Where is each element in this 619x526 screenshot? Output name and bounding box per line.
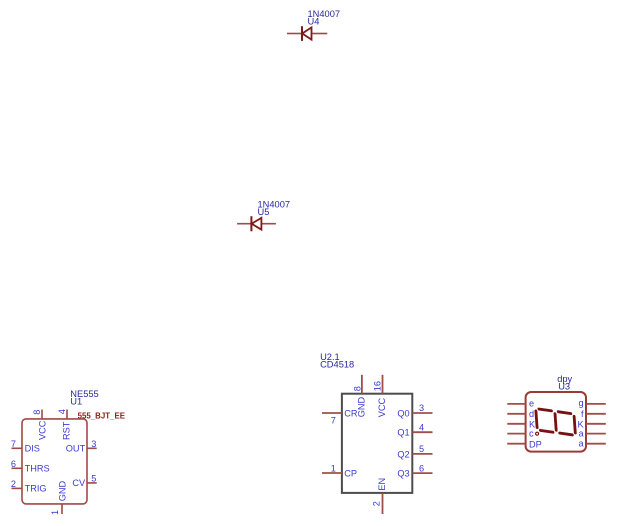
svg-text:U3: U3	[558, 382, 570, 392]
svg-text:RST: RST	[61, 421, 71, 440]
svg-text:4: 4	[57, 409, 67, 414]
U2.1 pin 4 wire	[412, 431, 432, 433]
U3 pin c wire	[507, 433, 525, 435]
svg-text:16: 16	[373, 381, 383, 391]
svg-text:5: 5	[419, 444, 424, 454]
U2.1 pin 1 wire	[322, 472, 342, 474]
svg-text:6: 6	[419, 463, 424, 473]
svg-text:VCC: VCC	[377, 398, 387, 418]
U2.1 pin 5 wire	[412, 453, 432, 455]
svg-text:7: 7	[331, 415, 336, 425]
counter U2.1 CD4518 body	[342, 394, 412, 493]
U3 seven-segment digit	[536, 409, 576, 436]
svg-text:c: c	[529, 428, 534, 438]
U1 pin 5 wire	[87, 482, 97, 484]
svg-text:a: a	[578, 428, 584, 438]
svg-text:DIS: DIS	[25, 444, 40, 454]
svg-text:U5: U5	[258, 207, 270, 217]
U1 pin 1 wire	[61, 504, 63, 514]
U3 pin f wire	[586, 413, 606, 415]
svg-text:1: 1	[331, 464, 336, 474]
svg-text:8: 8	[32, 410, 42, 415]
svg-text:Q3: Q3	[397, 469, 409, 479]
svg-text:f: f	[581, 409, 584, 419]
diode U4 anode wire (right)	[312, 33, 328, 35]
svg-text:d: d	[529, 409, 534, 419]
svg-text:4: 4	[419, 422, 424, 432]
U3 pin a wire (upper)	[586, 433, 606, 435]
U2.1 pin 6 wire	[412, 472, 432, 474]
U2.1 pin 8 wire	[361, 375, 363, 394]
U1 pin 2 wire	[12, 487, 23, 489]
diode U5 anode wire (right)	[261, 223, 276, 225]
svg-text:Q2: Q2	[397, 449, 409, 459]
svg-text:8: 8	[352, 386, 362, 391]
U3 pin K wire (left)	[507, 423, 525, 425]
U3 pin d wire	[507, 413, 525, 415]
svg-text:7: 7	[11, 439, 16, 449]
U1 pin 8 wire	[41, 410, 43, 419]
op-amp U1 555 body	[22, 419, 87, 504]
U1 pin 4 wire	[66, 410, 68, 419]
svg-text:2: 2	[11, 479, 16, 489]
svg-text:DP: DP	[529, 439, 542, 449]
svg-text:U4: U4	[308, 17, 320, 27]
U1 pin 3 wire	[87, 447, 97, 449]
diode U5 cathode wire (left)	[237, 223, 251, 225]
svg-text:THRS: THRS	[25, 464, 50, 474]
diode U4 cathode wire (left)	[287, 33, 302, 35]
svg-text:CD4518: CD4518	[320, 360, 354, 370]
svg-text:3: 3	[419, 403, 424, 413]
diode U4 triangle	[302, 27, 311, 39]
U1 pin 7 wire	[12, 447, 23, 449]
svg-text:CV: CV	[72, 478, 86, 488]
svg-text:CR: CR	[344, 409, 358, 419]
U3 pin K wire (right)	[586, 423, 606, 425]
svg-text:CP: CP	[344, 469, 357, 479]
svg-text:OUT: OUT	[66, 444, 86, 454]
diode U5 triangle	[252, 218, 262, 230]
U3 pin e wire	[507, 403, 525, 405]
svg-text:6: 6	[11, 459, 16, 469]
svg-text:Q1: Q1	[397, 428, 409, 438]
U3 decimal point	[536, 432, 539, 435]
U3 pin a wire (lower)	[586, 443, 606, 445]
U1 pin 6 wire	[12, 467, 23, 469]
svg-text:TRIG: TRIG	[25, 484, 47, 494]
svg-text:VCC: VCC	[37, 420, 47, 440]
U2.1 pin 7 wire	[322, 412, 342, 414]
svg-text:2: 2	[371, 501, 381, 506]
svg-text:a: a	[578, 439, 584, 449]
svg-text:Q0: Q0	[397, 409, 409, 419]
svg-text:g: g	[578, 398, 583, 408]
U2.1 pin 2 wire	[382, 493, 384, 514]
svg-text:U1: U1	[70, 396, 82, 406]
svg-text:GND: GND	[357, 397, 367, 418]
svg-text:3: 3	[91, 439, 96, 449]
svg-text:EN: EN	[377, 478, 387, 491]
U2.1 pin 3 wire	[412, 412, 432, 414]
diode U5 cathode bar	[250, 216, 252, 231]
U3 pin DP wire	[507, 443, 525, 445]
svg-text:5: 5	[91, 474, 96, 484]
svg-text:GND: GND	[57, 481, 67, 502]
U2.1 pin 16 wire	[382, 375, 384, 394]
diode U4 cathode bar	[301, 26, 303, 41]
svg-text:1: 1	[50, 510, 60, 515]
svg-text:e: e	[529, 399, 534, 409]
U3 pin g wire	[586, 403, 606, 405]
display U3 body	[526, 392, 586, 452]
